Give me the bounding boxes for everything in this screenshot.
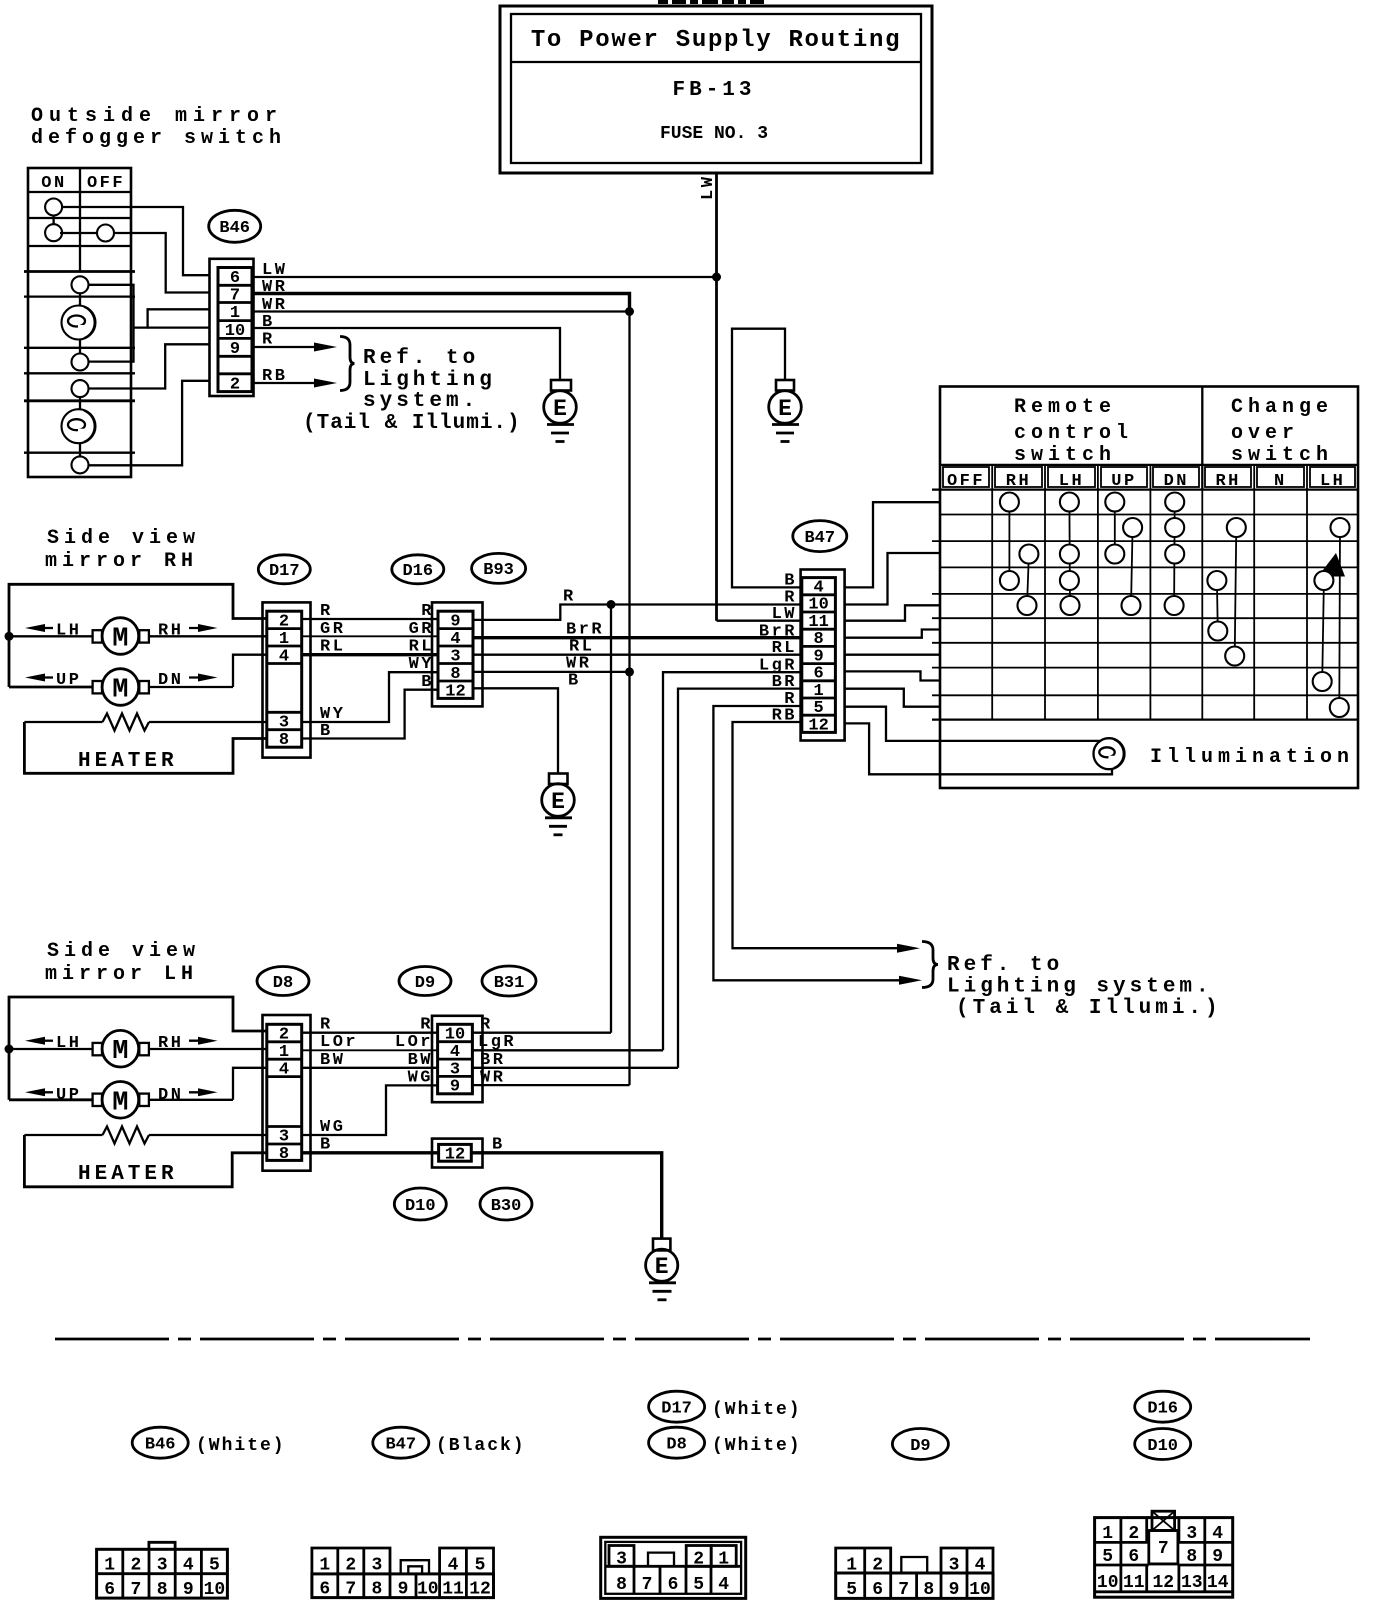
svg-text:FUSE NO. 3: FUSE NO. 3 (660, 124, 768, 144)
svg-text:3: 3 (1186, 1524, 1197, 1544)
svg-text:4: 4 (450, 630, 460, 649)
arrowhead RB ref (897, 944, 920, 953)
svg-text:(White): (White) (712, 1436, 802, 1456)
svg-text:3: 3 (371, 1556, 382, 1576)
svg-text:DN: DN (1164, 472, 1189, 491)
legend D17 oval (649, 1391, 802, 1422)
connector B47 oval label (793, 521, 847, 552)
brace ref lighting top (340, 337, 355, 391)
svg-text:10: 10 (204, 1580, 226, 1600)
svg-text:8: 8 (813, 630, 823, 649)
wire LOr D8 pin1 to D9 pin4 (302, 1049, 438, 1051)
svg-text:R: R (320, 602, 333, 621)
table contact chains RH changeover (1217, 528, 1236, 657)
svg-text:10: 10 (808, 596, 828, 615)
legend B46 oval (132, 1427, 285, 1458)
svg-text:6: 6 (668, 1575, 679, 1595)
svg-text:WG: WG (408, 1069, 433, 1088)
svg-text:D16: D16 (1147, 1400, 1178, 1419)
svg-text:6: 6 (319, 1580, 330, 1600)
svg-text:6: 6 (872, 1580, 883, 1600)
svg-text:5: 5 (846, 1580, 857, 1600)
svg-text:E: E (778, 396, 792, 422)
wire B47 pin1 to table row9 (845, 689, 940, 707)
svg-text:LW: LW (699, 175, 718, 200)
wire labels B93 right (563, 588, 604, 691)
connector D16 oval label (392, 555, 444, 584)
svg-text:GR: GR (409, 620, 434, 639)
svg-text:10: 10 (1097, 1573, 1119, 1593)
svg-text:ON: ON (41, 174, 66, 193)
heater RH box loop (24, 722, 266, 773)
wire motor M1 to D17 pin1 (149, 635, 267, 637)
svg-text:BR: BR (480, 1051, 505, 1070)
svg-text:To Power Supply Routing: To Power Supply Routing (531, 27, 901, 54)
junction node mirror RH common (5, 632, 14, 641)
svg-text:7: 7 (130, 1580, 141, 1600)
wire LW B46 pin6 to junction (252, 276, 717, 278)
svg-text:9: 9 (230, 340, 240, 359)
svg-text:Lighting system.: Lighting system. (947, 976, 1213, 999)
svg-text:R: R (563, 588, 576, 607)
motor M3 LH-RH (93, 1030, 149, 1067)
wire D17 pin4 to UP-DN motor (233, 655, 267, 687)
svg-text:RL: RL (409, 638, 434, 657)
wire B B46 pin10 to ground lamp (252, 328, 560, 380)
table contacts row5 (1018, 596, 1184, 615)
wire BR B31 pin3 to B47 pin1 (678, 689, 801, 1068)
connector B46 oval label (209, 210, 261, 242)
wire R net vertical riser (610, 605, 612, 1033)
svg-text:5: 5 (693, 1575, 704, 1595)
wire B B93 pin12 to ground lamp E3 (473, 688, 558, 773)
svg-text:4: 4 (975, 1556, 986, 1576)
svg-text:12: 12 (445, 683, 465, 702)
svg-text:B47: B47 (804, 529, 835, 548)
svg-text:4: 4 (183, 1556, 194, 1576)
ground lamp E3 (542, 774, 575, 835)
svg-text:HEATER: HEATER (78, 1163, 178, 1186)
svg-text:UP: UP (56, 1086, 81, 1105)
connector D10 oval label (394, 1188, 446, 1220)
svg-text:N: N (1274, 472, 1287, 491)
table contact chains DN column (1173, 502, 1176, 606)
connector D8 oval label (257, 967, 309, 996)
wire LW from fuse box down to B47 pin 11 (699, 173, 801, 621)
svg-text:D8: D8 (273, 974, 293, 993)
svg-text:Lighting: Lighting (363, 369, 496, 392)
connector 12 ground (432, 1139, 483, 1168)
ground lamp E2 (769, 380, 802, 442)
svg-text:B31: B31 (494, 974, 525, 993)
wire B D17 pin8 to D16 pin12 (302, 690, 438, 739)
label Side view mirror RH (45, 527, 200, 573)
motor M2 UP-DN (93, 669, 149, 706)
svg-text:10: 10 (417, 1580, 439, 1600)
svg-text:3: 3 (157, 1556, 168, 1576)
table contacts row4 (1000, 571, 1334, 590)
junction node mirror LH common (5, 1045, 14, 1054)
svg-text:WG: WG (320, 1118, 345, 1137)
wire B47 pin11 to table row5 (845, 605, 940, 620)
table contact chains UP column (1115, 502, 1133, 606)
svg-text:7: 7 (230, 287, 240, 306)
wire WR B46 pin1 (252, 310, 630, 312)
connector B93 oval label (472, 553, 526, 583)
connector D9-B31 (432, 1016, 483, 1102)
arrow RH2 (158, 1034, 218, 1053)
svg-text:B: B (421, 673, 434, 692)
svg-text:Remote: Remote (1014, 396, 1116, 419)
svg-text:WY: WY (409, 655, 434, 674)
table contact row7 (1225, 647, 1244, 666)
svg-text:R: R (320, 1016, 333, 1035)
wire WR B93 pin8 to junction (473, 671, 630, 673)
svg-text:4: 4 (448, 1556, 459, 1576)
svg-text:B46: B46 (145, 1436, 176, 1455)
svg-text:Illumination: Illumination (1150, 746, 1354, 769)
wire RL D17 pin4 to D16 pin3 (302, 653, 438, 656)
svg-text:9: 9 (1212, 1547, 1223, 1567)
wire B47 pin5 to illumination (845, 707, 1101, 741)
svg-text:7: 7 (1158, 1539, 1169, 1559)
arrow DN2 (158, 1086, 218, 1105)
table triangle marker (1318, 553, 1345, 577)
wire motor M2 right (149, 686, 233, 688)
svg-text:8: 8 (157, 1580, 168, 1600)
svg-text:D17: D17 (269, 562, 300, 581)
svg-text:10: 10 (445, 1026, 465, 1045)
svg-text:3: 3 (279, 1128, 289, 1147)
wire WR B46 pin7 (252, 294, 630, 312)
wire B connector12 to ground lamp E4 (471, 1153, 661, 1239)
svg-text:DN: DN (158, 1086, 183, 1105)
ground lamp E1 (544, 380, 577, 442)
svg-text:11: 11 (1123, 1573, 1145, 1593)
svg-text:Ref. to: Ref. to (363, 347, 479, 370)
switch lamp 2 chain (62, 380, 96, 473)
table contacts row2 (1123, 518, 1349, 537)
svg-text:6: 6 (1128, 1547, 1139, 1567)
svg-text:2: 2 (345, 1556, 356, 1576)
svg-text:WR: WR (480, 1069, 505, 1088)
switch contacts row2 ON-OFF bridge (60, 225, 114, 242)
arrowhead R ref (899, 976, 922, 985)
svg-text:RL: RL (772, 639, 797, 658)
wire GR D17 pin1 to D16 pin4 (302, 635, 438, 637)
svg-text:D9: D9 (910, 1437, 930, 1456)
svg-text:D17: D17 (661, 1400, 692, 1419)
svg-text:LH: LH (56, 1034, 81, 1053)
svg-text:HEATER: HEATER (78, 750, 178, 773)
svg-text:system.: system. (363, 390, 479, 413)
heater LH resistor (24, 1127, 266, 1144)
svg-text:3: 3 (616, 1550, 627, 1570)
arrow UP (25, 671, 81, 690)
table contact row9 (1330, 698, 1349, 717)
connector B46 (210, 259, 254, 396)
svg-text:8: 8 (279, 1145, 289, 1164)
switch lamp 1 chain (62, 276, 96, 370)
svg-text:Change: Change (1231, 396, 1333, 419)
svg-text:OFF: OFF (947, 472, 985, 491)
wire labels B31 right (478, 1016, 516, 1088)
svg-text:(White): (White) (712, 1400, 802, 1420)
svg-text:B: B (492, 1136, 505, 1155)
mirror LH body outline (9, 997, 267, 1100)
wire R B93 pin9 to B47 pin10 (473, 605, 801, 620)
wire switch row1 to B46 pin6 (62, 207, 210, 275)
svg-text:1: 1 (230, 304, 240, 323)
svg-text:Side view: Side view (47, 940, 200, 963)
svg-text:RH: RH (158, 622, 183, 641)
wire B47 pin8 to table row6 (845, 630, 940, 638)
svg-text:2: 2 (130, 1556, 141, 1576)
wire WG D8 pin3 to D9 pin9 (302, 1085, 438, 1135)
svg-text:2: 2 (279, 1026, 289, 1045)
clipped text remnant at top edge (658, 0, 764, 4)
connector D17 (263, 602, 311, 757)
connector D16-B93 (432, 602, 483, 706)
svg-text:12: 12 (469, 1580, 491, 1600)
svg-text:mirror RH: mirror RH (45, 550, 198, 573)
svg-text:M: M (112, 625, 128, 655)
legend D8 oval (649, 1427, 802, 1458)
connector B47 (801, 570, 845, 741)
svg-text:2: 2 (1128, 1524, 1139, 1544)
svg-text:B46: B46 (219, 219, 250, 238)
wire D8 pin4 to UP-DN motor (233, 1068, 267, 1100)
svg-text:4: 4 (450, 1043, 460, 1062)
svg-text:OFF: OFF (87, 174, 125, 193)
svg-text:D10: D10 (1147, 1437, 1178, 1456)
svg-text:LOr: LOr (395, 1033, 433, 1052)
svg-text:R: R (480, 1016, 493, 1035)
svg-text:(Black): (Black) (436, 1436, 526, 1456)
svg-text:1: 1 (279, 630, 289, 649)
junction node R net (607, 600, 616, 609)
wire B47 pin10 to table row3 (845, 553, 940, 605)
svg-text:switch: switch (1014, 444, 1116, 467)
connector D9 oval label (399, 967, 451, 996)
wire B47 pin12 to illumination (845, 723, 1112, 774)
svg-text:1: 1 (104, 1556, 115, 1576)
wire RB B46 pin2 reference arrow (252, 379, 337, 388)
outside mirror defogger switch body (24, 168, 135, 477)
wire BrR B93 pin4 to B47 pin8 (473, 636, 801, 639)
svg-text:3: 3 (949, 1556, 960, 1576)
motor M1 LH-RH (93, 618, 149, 655)
arrow LH (25, 622, 81, 641)
svg-text:FB-13: FB-13 (672, 79, 755, 102)
svg-text:BW: BW (320, 1051, 345, 1070)
svg-text:(Tail & Illumi.): (Tail & Illumi.) (956, 997, 1222, 1020)
illumination lamp (1094, 738, 1125, 769)
svg-text:Ref. to: Ref. to (947, 954, 1063, 977)
svg-text:control: control (1014, 422, 1133, 445)
wire R D8 pin2 to D9 pin10 (302, 1032, 438, 1034)
ground lamp E4 (646, 1239, 678, 1300)
legend B47 oval (373, 1427, 526, 1458)
connector B31 oval label (482, 966, 536, 996)
svg-text:E: E (553, 396, 567, 422)
table grid (932, 465, 1358, 720)
svg-text:8: 8 (450, 665, 460, 684)
wire RL B93 pin3 to B47 pin9 (473, 654, 801, 656)
wire B D8 pin8 to connector 12 (302, 1151, 439, 1154)
svg-text:B: B (568, 672, 581, 691)
svg-text:4: 4 (279, 1061, 289, 1080)
svg-text:D10: D10 (405, 1197, 436, 1216)
svg-text:B: B (320, 722, 333, 741)
svg-text:8: 8 (923, 1580, 934, 1600)
brace ref lighting right (922, 942, 938, 988)
svg-text:D9: D9 (415, 974, 435, 993)
wire to LH-RH motor (9, 1048, 93, 1050)
svg-text:13: 13 (1181, 1573, 1203, 1593)
svg-text:1: 1 (1102, 1524, 1113, 1544)
svg-text:12: 12 (1152, 1573, 1174, 1593)
svg-text:10: 10 (969, 1580, 991, 1600)
wire R B46 pin9 reference arrow (252, 343, 337, 352)
pinout D9 (836, 1548, 993, 1600)
svg-text:3: 3 (279, 714, 289, 733)
svg-text:D8: D8 (666, 1436, 686, 1455)
label Side view mirror LH (45, 940, 200, 986)
svg-text:1: 1 (279, 1043, 289, 1062)
wire labels D16 left (409, 602, 434, 692)
pinout B47 (312, 1548, 494, 1600)
text Ref to Lighting system (303, 347, 521, 435)
svg-text:mirror LH: mirror LH (45, 963, 198, 986)
connector D17 oval label (258, 555, 310, 584)
arrow DN (158, 671, 218, 690)
table contact chains RH column (1009, 502, 1029, 606)
svg-text:5: 5 (475, 1556, 486, 1576)
motor M4 UP-DN (93, 1082, 149, 1119)
wire LgR B31 pin4 (472, 1049, 663, 1051)
wire labels D9 left (395, 1016, 433, 1088)
svg-text:BW: BW (408, 1051, 433, 1070)
svg-text:GR: GR (320, 620, 345, 639)
svg-text:M: M (112, 1088, 128, 1118)
switch contacts row1 ON (45, 199, 62, 242)
svg-text:8: 8 (616, 1575, 627, 1595)
svg-text:LgR: LgR (478, 1033, 516, 1052)
wire motor M4 right (149, 1099, 233, 1101)
svg-text:D16: D16 (402, 562, 433, 581)
svg-text:UP: UP (56, 671, 81, 690)
svg-text:LH: LH (56, 622, 81, 641)
svg-text:E: E (551, 789, 565, 815)
svg-text:LH: LH (1320, 472, 1345, 491)
svg-text:LH: LH (1059, 472, 1084, 491)
pinout B46 (97, 1542, 228, 1600)
svg-text:7: 7 (898, 1580, 909, 1600)
wire labels D17 right (320, 602, 345, 741)
junction node LW / B46 pin 6 (712, 273, 721, 282)
table contacts row1 (1000, 493, 1184, 512)
svg-text:9: 9 (183, 1580, 194, 1600)
svg-text:5: 5 (209, 1556, 220, 1576)
pinout D17 (601, 1537, 746, 1598)
svg-text:M: M (112, 1037, 128, 1067)
wire R B47 pin5 to ref arrow (713, 706, 908, 980)
wire B47 pin6 to table row8 (845, 671, 940, 680)
table contact chains LH column (1068, 502, 1071, 606)
remote control and change over switch table (932, 387, 1358, 789)
legend D9 oval (892, 1429, 948, 1460)
svg-text:RH: RH (1215, 472, 1240, 491)
text Ref to Lighting system right (947, 954, 1222, 1020)
wire WR vertical riser (628, 312, 630, 672)
mirror RH body outline (9, 584, 267, 687)
svg-text:E: E (655, 1254, 669, 1280)
wire switch bottom contact to B46 pin2 (89, 381, 210, 466)
legend D10 oval (1135, 1429, 1191, 1460)
svg-text:7: 7 (642, 1575, 653, 1595)
svg-text:switch: switch (1231, 444, 1333, 467)
svg-text:B30: B30 (491, 1197, 522, 1216)
wire WR riser to B31 pin9 (628, 672, 630, 1085)
heater RH resistor (24, 714, 266, 731)
wire lamp1 jumper at switch edge (89, 285, 210, 362)
wire motor M3 to D8 pin1 (149, 1048, 267, 1050)
svg-text:5: 5 (813, 699, 823, 718)
arrow RH (158, 622, 218, 641)
svg-text:RL: RL (320, 638, 345, 657)
svg-text:over: over (1231, 422, 1299, 445)
svg-text:10: 10 (225, 322, 245, 341)
svg-text:LW: LW (772, 605, 797, 624)
svg-text:B: B (320, 1136, 333, 1155)
svg-text:12: 12 (808, 717, 828, 736)
table contact chains LH changeover (1322, 528, 1340, 708)
svg-text:5: 5 (1102, 1547, 1113, 1567)
svg-text:9: 9 (450, 1078, 460, 1097)
wire labels D8 right (320, 1016, 358, 1155)
svg-text:RH: RH (1006, 472, 1031, 491)
svg-text:B93: B93 (483, 561, 514, 580)
wire labels B47 left (759, 572, 797, 726)
connector B30 oval label (480, 1188, 532, 1220)
wire B47 pin9 to table row7 (845, 654, 940, 656)
wire R D17 pin2 to D16 pin9 (302, 618, 438, 620)
svg-text:8: 8 (279, 731, 289, 750)
svg-text:12: 12 (445, 1146, 465, 1165)
arrow LH2 (25, 1034, 81, 1053)
wire switch contact to B46 pin9 (89, 344, 210, 388)
label Outside mirror defogger switch (31, 105, 286, 150)
svg-text:9: 9 (949, 1580, 960, 1600)
svg-text:R: R (421, 602, 434, 621)
svg-text:2: 2 (693, 1550, 704, 1570)
svg-text:(White): (White) (196, 1436, 286, 1456)
svg-text:4: 4 (279, 648, 289, 667)
svg-text:8: 8 (1186, 1547, 1197, 1567)
power supply routing box (500, 6, 932, 173)
svg-text:8: 8 (371, 1580, 382, 1600)
svg-text:2: 2 (872, 1556, 883, 1576)
svg-text:defogger switch: defogger switch (31, 127, 286, 150)
svg-text:9: 9 (398, 1580, 409, 1600)
svg-text:2: 2 (230, 376, 240, 395)
arrow UP2 (25, 1086, 81, 1105)
svg-text:RH: RH (158, 1034, 183, 1053)
svg-text:9: 9 (450, 613, 460, 632)
svg-text:1: 1 (718, 1550, 729, 1570)
svg-text:UP: UP (1111, 472, 1136, 491)
